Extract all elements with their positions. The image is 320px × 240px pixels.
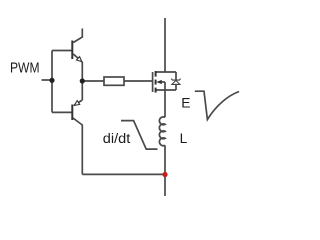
svg-text:PWM: PWM xyxy=(10,60,40,76)
svg-text:di/dt: di/dt xyxy=(103,131,131,147)
svg-text:E: E xyxy=(181,95,190,110)
svg-text:L: L xyxy=(180,131,188,146)
